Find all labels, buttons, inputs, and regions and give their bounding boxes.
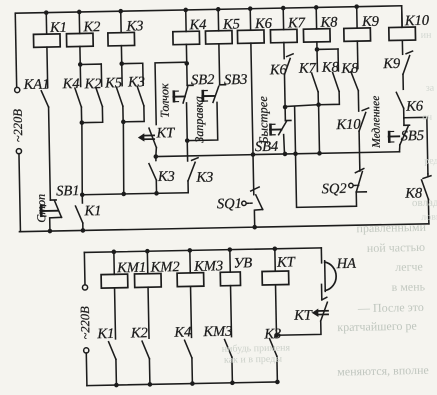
svg-text:НА: НА: [335, 256, 356, 272]
svg-text:кратчайшего ре: кратчайшего ре: [337, 319, 417, 335]
svg-text:К4: К4: [188, 17, 206, 33]
svg-text:К6: К6: [405, 98, 424, 114]
svg-text:~220В: ~220В: [78, 306, 93, 340]
svg-text:SB3: SB3: [224, 72, 248, 88]
svg-text:К3: К3: [157, 169, 175, 185]
svg-text:лови: лови: [421, 212, 437, 223]
svg-text:~220В: ~220В: [11, 109, 26, 143]
svg-text:Быстрее: Быстрее: [256, 96, 271, 145]
svg-text:К2: К2: [83, 76, 101, 92]
svg-text:SB4: SB4: [255, 139, 279, 155]
svg-text:К7: К7: [298, 60, 317, 76]
svg-text:К3: К3: [125, 18, 143, 34]
svg-text:SB2: SB2: [191, 72, 215, 88]
svg-text:ной частью: ной частью: [367, 240, 426, 255]
svg-text:К2: К2: [130, 325, 148, 341]
svg-text:КТ: КТ: [155, 125, 175, 141]
svg-text:К1: К1: [49, 20, 67, 36]
svg-text:К4: К4: [173, 324, 191, 340]
svg-text:К1: К1: [96, 326, 114, 342]
svg-text:легче: легче: [395, 259, 423, 274]
svg-text:К8: К8: [340, 61, 359, 77]
svg-text:К6: К6: [269, 62, 288, 78]
svg-text:КТ: КТ: [293, 308, 313, 324]
svg-text:Заправка: Заправка: [191, 96, 206, 143]
svg-text:КМ2: КМ2: [150, 259, 180, 276]
svg-text:К3: К3: [127, 74, 145, 90]
svg-text:овлад: овлад: [412, 197, 437, 210]
svg-text:за: за: [426, 83, 435, 94]
svg-text:К9: К9: [382, 56, 401, 72]
svg-text:оч: оч: [422, 112, 432, 123]
svg-text:правленными: правленными: [356, 220, 426, 235]
svg-text:Стоп: Стоп: [34, 194, 49, 223]
svg-text:К8: К8: [321, 59, 340, 75]
svg-text:SB1: SB1: [56, 183, 80, 199]
svg-text:КМ3: КМ3: [202, 324, 232, 341]
svg-text:УВ: УВ: [233, 255, 252, 271]
svg-text:К2: К2: [82, 19, 100, 35]
svg-text:КА1: КА1: [22, 77, 49, 94]
svg-text:К3: К3: [195, 169, 213, 185]
svg-text:К1: К1: [83, 203, 101, 219]
svg-text:КТ: КТ: [276, 254, 296, 270]
svg-text:SB5: SB5: [401, 128, 425, 144]
svg-text:КМ3: КМ3: [193, 258, 223, 275]
svg-text:К5: К5: [104, 75, 122, 91]
svg-text:К4: К4: [61, 76, 79, 92]
svg-text:К3: К3: [263, 326, 281, 342]
svg-text:ин: ин: [421, 30, 433, 41]
svg-text:в мень: в мень: [391, 279, 425, 294]
svg-text:К8: К8: [319, 15, 338, 31]
svg-text:SQ2: SQ2: [322, 181, 347, 197]
svg-text:меняются, вполне: меняются, вполне: [337, 363, 429, 379]
svg-text:Медленнее: Медленнее: [370, 96, 383, 149]
svg-text:К10: К10: [404, 13, 430, 29]
svg-text:К10: К10: [335, 117, 361, 133]
svg-text:ред: ред: [424, 156, 437, 167]
svg-text:Толчок: Толчок: [157, 83, 172, 118]
svg-text:— После это: — После это: [357, 300, 424, 315]
svg-text:SQ1: SQ1: [217, 196, 242, 212]
svg-text:как и в преды: как и в преды: [224, 354, 283, 366]
svg-text:К9: К9: [361, 14, 380, 30]
